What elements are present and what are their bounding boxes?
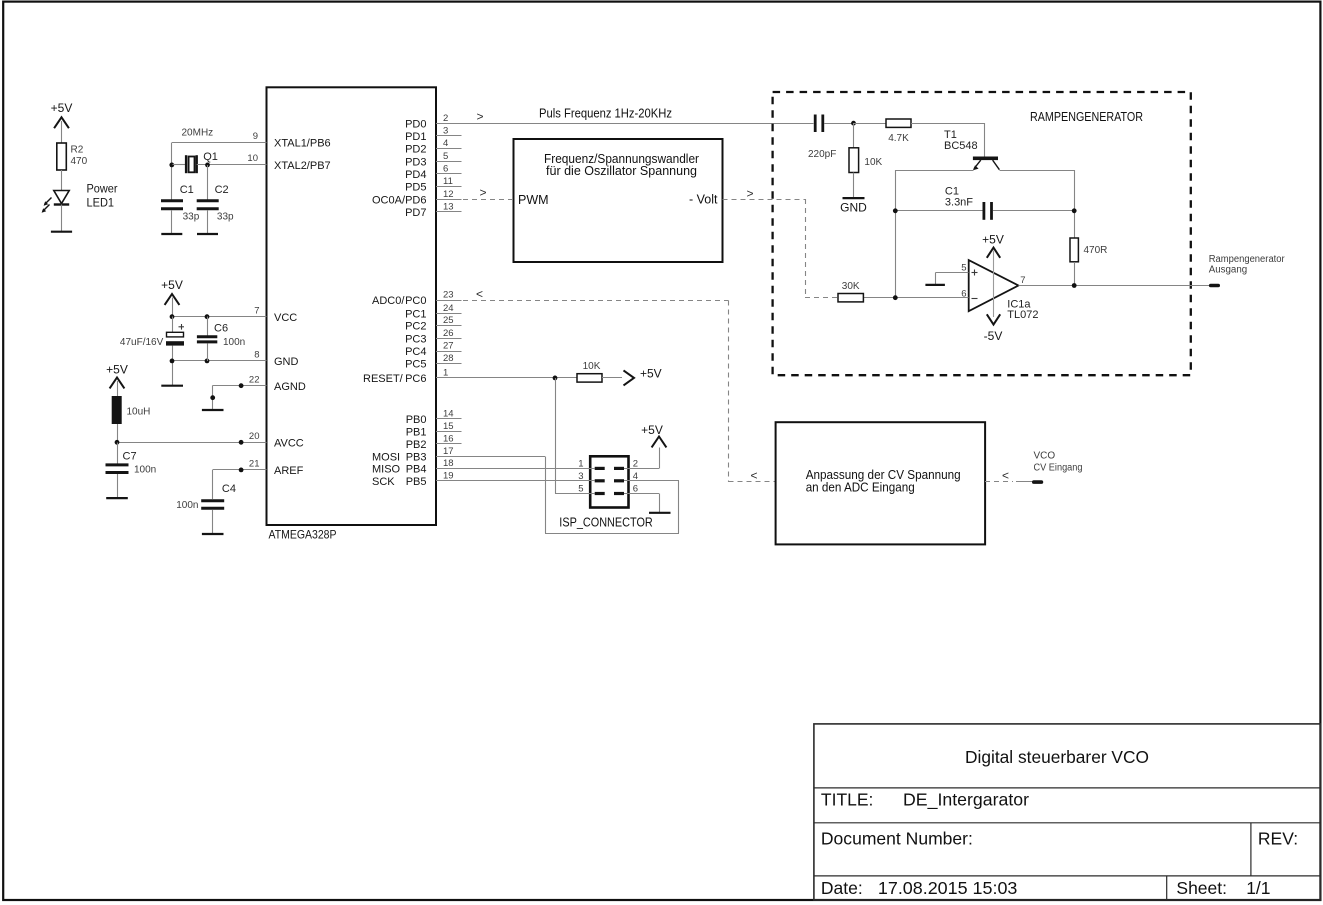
svg-text:Document Number:: Document Number: — [821, 828, 973, 848]
svg-text:17.08.2015 15:03: 17.08.2015 15:03 — [878, 878, 1018, 898]
svg-text:5: 5 — [443, 151, 448, 162]
pin 7 VCC — [241, 305, 297, 324]
svg-text:PD3: PD3 — [405, 156, 426, 168]
svg-text:GND: GND — [840, 201, 867, 215]
pin 26 PC3 — [405, 328, 461, 346]
svg-text:23: 23 — [443, 290, 454, 301]
terminal VCO CV Eingang — [1034, 451, 1083, 483]
ground (LED branch) — [51, 231, 72, 233]
svg-text:an den ADC Eingang: an den ADC Eingang — [806, 480, 915, 494]
svg-text:TL072: TL072 — [1007, 309, 1038, 321]
svg-text:>: > — [746, 187, 753, 201]
svg-text:PC5: PC5 — [405, 359, 426, 371]
svg-text:10uH: 10uH — [127, 406, 151, 417]
ground (47uF) — [161, 385, 183, 387]
wire AGND net — [210, 383, 243, 410]
pin 5 PD3 — [405, 151, 461, 169]
wire PWM dashed net (PD6) — [436, 186, 514, 200]
svg-text:Date:: Date: — [821, 878, 863, 898]
resistor R1 10K (reset pull-up) — [577, 361, 622, 382]
ground (ISP) — [649, 512, 671, 514]
svg-text:Ausgang: Ausgang — [1209, 265, 1248, 276]
svg-text:C6: C6 — [214, 322, 228, 334]
wire ADC0 dashed net (PC0) — [436, 287, 776, 483]
pin 6 PD4 — [405, 164, 461, 182]
svg-text:15: 15 — [443, 421, 454, 432]
svg-text:PC2: PC2 — [405, 321, 426, 333]
svg-text:VCO: VCO — [1034, 451, 1056, 462]
ISP pin 4 contact — [614, 471, 638, 482]
svg-text:4.7K: 4.7K — [888, 133, 909, 144]
+5V supply symbol (AVCC) — [106, 363, 128, 397]
svg-text:3.3nF: 3.3nF — [945, 197, 973, 209]
wire op-amp +input to ground — [936, 273, 969, 286]
+5V supply symbol (LED branch) — [51, 101, 73, 143]
title text Digital steuerbarer VCO — [965, 747, 1149, 767]
svg-text:PC0: PC0 — [405, 295, 426, 307]
pin 15 PB1 — [406, 421, 462, 439]
svg-text:10: 10 — [247, 153, 258, 164]
svg-text:470R: 470R — [1084, 245, 1108, 256]
node XTAL2 left — [169, 163, 174, 168]
svg-text:AREF: AREF — [274, 465, 304, 477]
node crystal right — [205, 163, 210, 168]
svg-text:47uF/16V: 47uF/16V — [120, 337, 164, 348]
wire T1 collector to right rail — [1000, 170, 1075, 238]
svg-text:PD1: PD1 — [405, 131, 426, 143]
wire LED1 to ground — [61, 205, 63, 232]
wire R2 to LED1 — [61, 170, 63, 191]
connector ISP_CONNECTOR body — [559, 456, 653, 529]
svg-text:28: 28 — [443, 353, 454, 364]
svg-text:>: > — [479, 186, 486, 200]
svg-text:REV:: REV: — [1258, 828, 1298, 848]
svg-text:<: < — [1002, 469, 1009, 483]
capacitor C1 3.3nF — [893, 186, 1077, 220]
svg-text:5: 5 — [578, 484, 583, 495]
IC U1 ATMEGA328P body — [267, 87, 437, 541]
pin 23 ADC0/PC0 — [372, 290, 462, 308]
+5V supply symbol (op-amp) — [982, 232, 1004, 317]
svg-text:+5V: +5V — [982, 232, 1004, 246]
pin 20 AVCC — [241, 431, 304, 450]
svg-text:SCK: SCK — [372, 476, 395, 488]
svg-text:12: 12 — [443, 189, 454, 200]
svg-text:4: 4 — [443, 138, 448, 149]
pin 11 PD5 — [405, 176, 461, 194]
LED LED1 — [42, 182, 118, 213]
ground (C2) — [197, 233, 218, 235]
wire AVCC net — [115, 424, 267, 464]
node 220pF/4.7K/10K junction — [851, 121, 856, 126]
pin 12 OC0A/PD6 — [372, 189, 462, 207]
ISP pin 3 contact — [578, 471, 604, 482]
Date row — [821, 878, 1271, 898]
pin 25 PC2 — [405, 315, 461, 333]
svg-text:<: < — [476, 287, 483, 301]
block Anpassung der CV Spannung — [776, 422, 986, 544]
svg-text:8: 8 — [254, 350, 259, 361]
svg-text:VCC: VCC — [274, 312, 297, 324]
svg-text:Puls Frequenz 1Hz-20KHz: Puls Frequenz 1Hz-20KHz — [539, 107, 672, 121]
svg-text:PB5: PB5 — [406, 476, 427, 488]
wire Puls net PD0 — [436, 107, 814, 124]
svg-text:ADC0/: ADC0/ — [372, 295, 405, 307]
svg-text:10K: 10K — [864, 157, 882, 168]
wire -Volt dashed net — [723, 187, 839, 298]
wire MISO net (pin18 to ISP1, ISP2 to +5V) — [436, 448, 660, 469]
pin 13 PD7 — [405, 202, 461, 220]
svg-text:13: 13 — [443, 202, 454, 213]
wire ISP6 to ground — [624, 494, 660, 513]
transistor T1 BC548 — [944, 123, 999, 170]
svg-text:GND: GND — [274, 356, 299, 368]
ground (AGND) — [202, 409, 224, 411]
ISP pin 6 contact — [614, 484, 638, 495]
svg-text:AVCC: AVCC — [274, 438, 304, 450]
pin 10 XTAL2/PB7 — [241, 153, 331, 172]
pin 27 PC4 — [405, 341, 461, 359]
svg-text:PD0: PD0 — [405, 118, 426, 130]
svg-text:Digital steuerbarer VCO: Digital steuerbarer VCO — [965, 747, 1149, 767]
svg-text:MISO: MISO — [372, 464, 401, 476]
svg-text:-5V: -5V — [984, 329, 1003, 343]
svg-text:CV Eingang: CV Eingang — [1034, 463, 1083, 474]
resistor 10K (to GND) — [849, 123, 883, 198]
svg-text:MOSI: MOSI — [372, 452, 400, 464]
ground (C1) — [161, 233, 182, 235]
svg-text:5: 5 — [961, 262, 966, 273]
svg-text:7: 7 — [1020, 275, 1025, 286]
svg-text:LED1: LED1 — [87, 196, 115, 210]
svg-text:RESET/: RESET/ — [363, 373, 404, 385]
svg-text:+5V: +5V — [106, 363, 128, 377]
pin 3 PD1 — [405, 126, 461, 144]
resistor R2 470 — [57, 143, 88, 170]
svg-text:7: 7 — [254, 305, 259, 316]
svg-text:100n: 100n — [134, 465, 156, 476]
wire VCC net — [170, 314, 267, 319]
pin 28 PC5 — [405, 353, 461, 371]
+5V supply symbol (VCC) — [161, 278, 183, 317]
pin 24 PC1 — [405, 303, 461, 321]
svg-text:XTAL2/PB7: XTAL2/PB7 — [274, 160, 331, 172]
op-amp IC1a TL072 — [961, 260, 1038, 321]
svg-text:3: 3 — [443, 126, 448, 137]
wire T1 emitter to left rail — [896, 170, 974, 298]
ground GND (10K) — [840, 198, 867, 214]
svg-text:17: 17 — [443, 446, 454, 457]
svg-text:PB2: PB2 — [406, 439, 427, 451]
svg-text:Rampengenerator: Rampengenerator — [1209, 254, 1286, 265]
svg-text:10K: 10K — [583, 361, 601, 372]
svg-text:BC548: BC548 — [944, 140, 978, 152]
pin 2 PD0 — [405, 113, 461, 130]
svg-text:220pF: 220pF — [808, 149, 836, 160]
svg-text:24: 24 — [443, 303, 454, 314]
svg-text:DE_Intergarator: DE_Intergarator — [903, 790, 1029, 811]
pin 9 XTAL1/PB6 — [241, 131, 331, 150]
svg-text:14: 14 — [443, 408, 454, 419]
TITLE row — [821, 790, 1029, 811]
svg-text:PB0: PB0 — [406, 414, 427, 426]
svg-text:PB3: PB3 — [406, 452, 427, 464]
wire CV input dashed net — [985, 469, 1034, 483]
svg-text:AGND: AGND — [274, 381, 306, 393]
svg-text:PC3: PC3 — [405, 333, 426, 345]
wire AREF net — [213, 468, 244, 500]
Document Number row — [821, 828, 1298, 848]
svg-text:PD5: PD5 — [405, 182, 426, 194]
wire op-amp -input row — [864, 295, 969, 300]
svg-text:2: 2 — [443, 113, 448, 124]
pin 22 AGND — [241, 374, 306, 393]
capacitor C4 100n — [176, 483, 236, 534]
svg-text:20MHz: 20MHz — [182, 128, 214, 139]
capacitor C2 33p — [197, 165, 234, 234]
svg-text:19: 19 — [443, 471, 454, 482]
svg-text:R2: R2 — [71, 145, 84, 156]
block Frequenz/Spannungswandler — [514, 139, 723, 262]
svg-text:1: 1 — [578, 458, 583, 469]
capacitor C1 33p — [161, 184, 200, 234]
svg-text:PD4: PD4 — [405, 169, 426, 181]
wire GND net row — [170, 359, 267, 364]
svg-text:ISP_CONNECTOR: ISP_CONNECTOR — [559, 515, 653, 529]
+5V supply symbol (ISP) — [641, 423, 666, 447]
wire MOSI net (pin17 to ISP4) — [436, 457, 679, 534]
svg-text:Q1: Q1 — [203, 151, 218, 163]
ISP pin 2 contact — [614, 458, 638, 469]
svg-text:PWM: PWM — [518, 193, 549, 207]
svg-text:16: 16 — [443, 433, 454, 444]
svg-text:ATMEGA328P: ATMEGA328P — [269, 527, 337, 541]
svg-text:20: 20 — [249, 431, 260, 442]
svg-text:>: > — [476, 110, 483, 124]
svg-text:PC4: PC4 — [405, 346, 426, 358]
capacitor 220pF (series) — [808, 115, 854, 161]
capacitor C5 47uF/16V electrolytic — [120, 317, 184, 386]
wire RESET to ISP5 — [555, 493, 595, 495]
pin 17 MOSI/PB3 — [372, 446, 454, 464]
svg-text:+5V: +5V — [640, 367, 662, 381]
svg-text:9: 9 — [253, 131, 258, 142]
svg-text:2: 2 — [633, 458, 638, 469]
crystal Q1 — [173, 151, 267, 173]
svg-text:TITLE:: TITLE: — [821, 790, 874, 810]
pin 16 PB2 — [406, 433, 462, 451]
svg-text:470: 470 — [71, 156, 88, 167]
pin 14 PB0 — [406, 408, 462, 426]
svg-text:PD6: PD6 — [405, 194, 426, 206]
capacitor C6 100n — [197, 317, 245, 362]
wire RESET net — [436, 376, 577, 494]
resistor 470R — [1070, 238, 1107, 286]
title block frame — [814, 724, 1321, 900]
svg-text:Power: Power — [87, 182, 118, 196]
capacitor C7 100n — [106, 451, 157, 499]
svg-text:C2: C2 — [215, 184, 229, 196]
terminal Rampengenerator Ausgang — [1209, 254, 1286, 286]
svg-text:RAMPENGENERATOR: RAMPENGENERATOR — [1030, 110, 1143, 124]
svg-text:100n: 100n — [176, 500, 198, 511]
pin 19 SCK/PB5 — [372, 471, 454, 489]
svg-text:6: 6 — [633, 484, 638, 495]
resistor 4.7K — [854, 119, 985, 144]
svg-text:<: < — [750, 469, 757, 483]
ground (op-amp +input) — [925, 284, 945, 286]
wire op-amp output net — [1019, 283, 1211, 288]
svg-text:PD2: PD2 — [405, 144, 426, 156]
svg-text:25: 25 — [443, 315, 454, 326]
svg-text:26: 26 — [443, 328, 454, 339]
svg-text:100n: 100n — [223, 337, 245, 348]
svg-text:XTAL1/PB6: XTAL1/PB6 — [274, 138, 331, 150]
dashed frame RAMPENGENERATOR — [773, 92, 1191, 375]
svg-text:27: 27 — [443, 341, 454, 352]
ground (C7) — [106, 497, 128, 499]
svg-text:PC1: PC1 — [405, 308, 426, 320]
-5V supply symbol (op-amp) — [984, 314, 1003, 343]
svg-text:+5V: +5V — [51, 101, 73, 115]
svg-text:22: 22 — [249, 374, 260, 385]
svg-text:18: 18 — [443, 458, 454, 469]
svg-text:C4: C4 — [222, 483, 236, 495]
svg-text:30K: 30K — [842, 281, 860, 292]
svg-text:PB4: PB4 — [406, 464, 427, 476]
inductor L1 10uH — [112, 396, 151, 424]
+5V arrow (reset pull-up) — [624, 367, 662, 386]
svg-text:PC6: PC6 — [405, 373, 426, 385]
resistor 30K — [838, 281, 863, 302]
svg-text:PB1: PB1 — [406, 426, 427, 438]
svg-text:33p: 33p — [217, 212, 234, 223]
svg-text:21: 21 — [249, 459, 260, 470]
svg-text:OC0A/: OC0A/ — [372, 194, 406, 206]
svg-text:6: 6 — [443, 164, 448, 175]
pin 21 AREF — [241, 459, 304, 478]
svg-text:1/1: 1/1 — [1246, 878, 1270, 898]
svg-text:C7: C7 — [123, 451, 137, 463]
wire SCK net (pin19 to ISP3) — [436, 480, 595, 482]
svg-text:für die Oszillator Spannung: für die Oszillator Spannung — [546, 164, 697, 178]
svg-text:33p: 33p — [183, 212, 200, 223]
svg-text:+5V: +5V — [161, 278, 183, 292]
wire XTAL1 net (20MHz top) — [172, 128, 267, 200]
pin 1 RESET/PC6 — [363, 368, 448, 386]
svg-text:11: 11 — [443, 176, 453, 187]
ISP pin 5 contact — [578, 484, 604, 495]
pin 8 GND — [241, 350, 299, 369]
svg-text:PD7: PD7 — [405, 207, 426, 219]
svg-text:+5V: +5V — [641, 423, 663, 437]
ground (C4) — [202, 533, 224, 535]
svg-text:Sheet:: Sheet: — [1176, 878, 1227, 898]
pin 18 MISO/PB4 — [372, 458, 454, 476]
svg-text:- Volt: - Volt — [689, 193, 718, 207]
ISP pin 1 contact — [578, 458, 604, 469]
svg-text:C1: C1 — [180, 184, 194, 196]
pin 4 PD2 — [405, 138, 461, 156]
